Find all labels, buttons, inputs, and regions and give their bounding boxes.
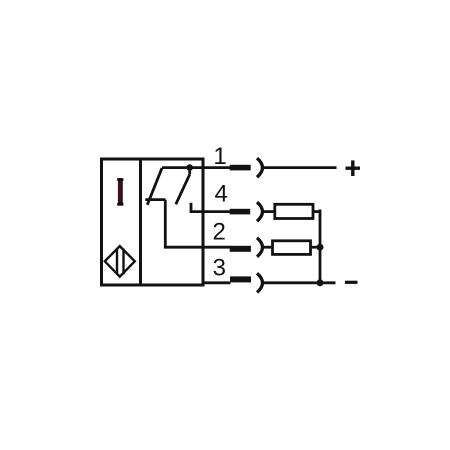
svg-text:1: 1 [213, 143, 226, 170]
svg-text:2: 2 [213, 218, 226, 245]
svg-text:3: 3 [213, 254, 226, 281]
svg-text:4: 4 [215, 181, 228, 208]
